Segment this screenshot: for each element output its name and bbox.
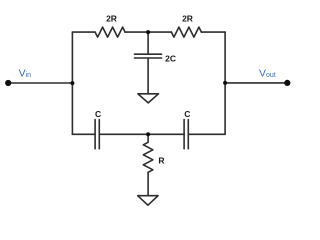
svg-text:2R: 2R <box>106 14 117 24</box>
wire R top lead <box>147 134 149 142</box>
ground (top) <box>138 94 159 103</box>
resistor R <box>143 142 153 172</box>
wire bottom segment node to C2 <box>148 133 184 135</box>
svg-text:2C: 2C <box>165 53 176 63</box>
resistor 2R (right) <box>171 27 201 37</box>
capacitor 2C <box>135 54 162 58</box>
capacitor C (right) <box>184 120 188 149</box>
wire R bottom lead <box>147 172 149 195</box>
wire 2C top lead <box>147 32 149 54</box>
node input junction <box>70 81 74 85</box>
wire top middle segment <box>125 31 171 33</box>
node top middle <box>146 30 150 34</box>
capacitor C (left) <box>95 120 99 149</box>
node Vout terminal <box>284 80 290 86</box>
svg-text:Vin: Vin <box>19 68 32 80</box>
resistor 2R (left) <box>95 27 125 37</box>
wire Vout lead <box>225 82 287 84</box>
ground (bottom) <box>138 196 158 206</box>
svg-text:C: C <box>184 109 190 119</box>
wire bottom middle segment <box>99 133 148 135</box>
wire left vertical <box>71 32 73 134</box>
svg-text:2R: 2R <box>182 14 193 24</box>
node Vin terminal <box>5 80 11 86</box>
node output junction <box>223 81 227 85</box>
wire 2C bottom lead <box>147 58 149 94</box>
node bottom middle <box>146 132 150 136</box>
wire top-left segment <box>72 31 95 33</box>
wire bottom-left segment <box>72 133 95 135</box>
wire Vin lead <box>8 82 72 84</box>
svg-text:R: R <box>158 155 164 165</box>
wire top right segment <box>201 31 225 33</box>
svg-text:Vout: Vout <box>259 68 276 80</box>
svg-text:C: C <box>95 109 101 119</box>
wire bottom right segment <box>188 133 225 135</box>
wire right vertical <box>224 32 226 134</box>
